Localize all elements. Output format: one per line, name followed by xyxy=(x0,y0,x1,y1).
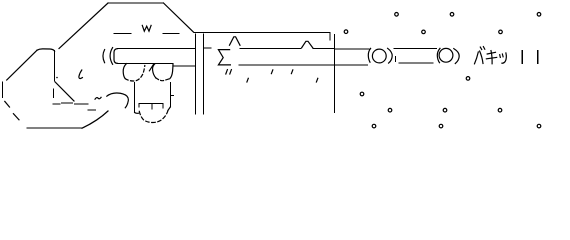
katakana tsu tick 1 xyxy=(499,55,502,58)
hand 2 left edge xyxy=(153,64,156,78)
pole top segment d xyxy=(394,48,436,50)
blob lower diagonal xyxy=(55,82,74,101)
wheel 2 left paren xyxy=(437,48,440,62)
blob tilde xyxy=(95,97,101,99)
pole bottom segment a xyxy=(239,64,368,66)
blob bottom line xyxy=(27,127,82,129)
mouth line corner tick xyxy=(162,103,164,108)
blob bottom arc xyxy=(82,111,108,128)
pole bottom line left xyxy=(118,62,174,64)
katakana ki bar 2 xyxy=(486,57,496,58)
dot b3 xyxy=(499,30,503,34)
left arm vertical xyxy=(134,82,136,112)
exclamation 1 stem xyxy=(521,51,523,60)
dot e2 xyxy=(443,108,447,112)
mouth T stem xyxy=(151,103,153,109)
hands middle caret xyxy=(149,64,153,71)
dot f1 xyxy=(372,124,376,128)
wheel 1 right paren xyxy=(388,48,393,63)
dot b2 xyxy=(422,30,426,34)
exclamation 2 stem xyxy=(537,51,539,60)
face right dash xyxy=(163,32,179,34)
pole top segment a xyxy=(240,47,301,49)
dot e1 xyxy=(388,108,392,112)
wheel 2 right paren xyxy=(454,49,459,64)
dot a2 xyxy=(450,13,454,17)
post vertical xyxy=(333,35,335,113)
blob left vertical xyxy=(2,82,4,97)
wall vertical 1 xyxy=(195,34,197,114)
dot f2 xyxy=(439,124,443,128)
right arm vertical xyxy=(169,82,171,107)
comma 1 xyxy=(271,70,272,74)
hand 1 solid arc xyxy=(123,64,126,79)
pole top segment c xyxy=(336,48,370,50)
wheel 2 circle xyxy=(439,48,453,62)
katakana ba dakuten xyxy=(480,47,485,50)
blob iota xyxy=(79,70,83,79)
pole bottom line right xyxy=(173,65,195,67)
katakana tsu tick 2 xyxy=(501,54,504,57)
comma 3 xyxy=(247,78,248,82)
blob big diagonal xyxy=(7,50,37,80)
dot a1 xyxy=(395,13,399,17)
katakana tsu tail xyxy=(502,53,506,63)
pole cap xyxy=(114,49,118,64)
pole top segment b xyxy=(313,48,333,50)
dot e3 xyxy=(498,108,502,112)
caret 2 xyxy=(302,41,313,48)
dot a3 xyxy=(537,13,541,17)
wire roof left diagonal xyxy=(59,3,108,49)
wheel 1 left paren xyxy=(368,48,370,62)
exclamation 1 dot xyxy=(521,62,523,64)
hand 1 dashed arc xyxy=(125,66,145,82)
mouth right top tick xyxy=(171,95,174,97)
katakana ba right stroke xyxy=(480,51,483,64)
blob small dash xyxy=(88,109,96,111)
comma 4 xyxy=(316,78,317,82)
face w mouth xyxy=(142,25,151,31)
dot b1 xyxy=(344,30,348,34)
blob arc bump xyxy=(37,49,55,51)
right arm foot hook xyxy=(168,107,170,110)
dot d1 xyxy=(360,92,364,96)
sigma xyxy=(218,50,230,65)
dot c1 xyxy=(466,77,470,81)
pole bottom segment b xyxy=(399,62,433,64)
face left dash xyxy=(114,32,131,34)
katakana ba left stroke xyxy=(475,52,479,64)
wire long fence line xyxy=(194,32,330,34)
blob dash line segments xyxy=(53,103,88,104)
blob curl xyxy=(107,93,129,108)
wheel 1 circle xyxy=(372,49,386,63)
mouth left tick xyxy=(138,103,140,107)
katakana ki stem xyxy=(491,51,492,64)
pole butt arc 2 xyxy=(110,48,113,65)
wire roof top line xyxy=(108,2,164,4)
pole top tick after wall xyxy=(204,47,211,49)
mouth line xyxy=(139,102,163,104)
pole butt arc 1 xyxy=(103,50,105,63)
blob backslash 1 xyxy=(5,101,10,107)
comma 2 xyxy=(291,70,292,74)
wire roof right diagonal xyxy=(164,3,194,32)
pole top line xyxy=(118,48,196,50)
dot f3 xyxy=(537,124,541,128)
blob backslash 2 xyxy=(13,114,19,120)
wire fence end tick xyxy=(329,33,331,41)
chin dashed arc xyxy=(139,110,168,122)
caret 1 xyxy=(230,37,241,46)
blob vertical fragment xyxy=(52,89,54,98)
left arm foot hook xyxy=(135,111,139,114)
hand 2 solid right arc xyxy=(170,64,173,79)
exclamation 2 dot xyxy=(537,62,539,64)
wheel separator tick xyxy=(395,57,397,62)
blob neck vertical xyxy=(54,51,56,81)
katakana ki bar 1 xyxy=(487,52,495,54)
sigma quote marks xyxy=(226,70,232,74)
hand 2 dashed bottom xyxy=(156,78,170,81)
wall vertical 2 xyxy=(202,34,204,114)
blob small dot xyxy=(56,77,58,79)
